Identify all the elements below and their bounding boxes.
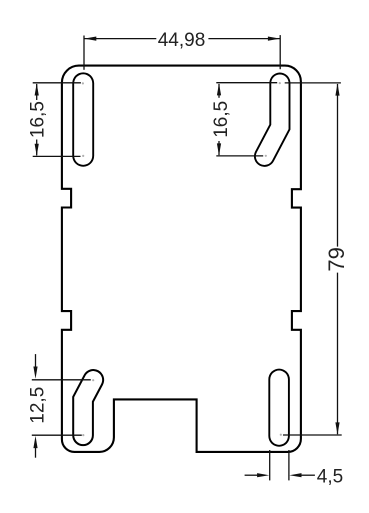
dimension 16,5 left: bottom arrowhead (35, 144, 39, 156)
part outline (plate with edge notches and bottom cutout) (62, 66, 301, 452)
svg-text:4,5: 4,5 (317, 466, 343, 487)
center mark: bottom-right slot lower arc center (280, 434, 282, 436)
dimension 16,5 right: extension and dimension lines (216, 83, 277, 156)
dimension 79: top arrowhead (335, 83, 339, 95)
dimension 44,98: left arrowhead (84, 37, 96, 41)
slot bottom-left (bent slot cutout) (83, 380, 93, 435)
svg-text:16,5: 16,5 (27, 101, 48, 138)
dimension 4,5: right arrowhead (outside, pointing left) (289, 473, 301, 477)
dimension 12,5: bottom arrowhead (outside, pointing up) (33, 436, 37, 448)
dimension 16,5 right: bottom arrowhead (217, 143, 221, 155)
slot top-right (bent slot cutout) (265, 83, 280, 156)
dimension 16,5 left: extension and dimension lines (33, 83, 81, 157)
center mark: top-left slot upper arc center (82, 82, 84, 84)
center mark: top-right slot upper arc center (279, 82, 281, 84)
dimension 12,5: extension and dimension lines (32, 354, 91, 458)
dimension 16,5 right: top arrowhead (217, 83, 221, 95)
dimension 44,98: extension and dimension lines (84, 35, 280, 70)
dimension 4,5: left arrowhead (outside, pointing right) (257, 473, 269, 477)
svg-text:12,5: 12,5 (27, 387, 48, 424)
dimension 44,98: right arrowhead (268, 37, 280, 41)
dimension 4,5: extension and dimension lines (245, 450, 315, 480)
center mark: top-left slot lower arc center (82, 155, 84, 157)
svg-text:44,98: 44,98 (158, 30, 206, 51)
svg-text:79: 79 (324, 247, 349, 271)
center mark: bottom-left slot upper arc center (92, 379, 94, 381)
dimension 79: bottom arrowhead (335, 422, 339, 434)
dimension 16,5 left: top arrowhead (35, 83, 39, 95)
slot bottom-right (vertical capsule cutout) (268, 379, 290, 436)
dimension 12,5: top arrowhead (outside, pointing down) (33, 367, 37, 379)
svg-text:16,5: 16,5 (211, 101, 232, 138)
center mark: top-right slot lower arc center (265, 155, 267, 157)
slot top-left (vertical capsule cutout) (72, 83, 94, 156)
center mark: bottom-left slot lower arc center (82, 434, 84, 436)
dimension 79: extension and dimension lines (283, 83, 342, 435)
